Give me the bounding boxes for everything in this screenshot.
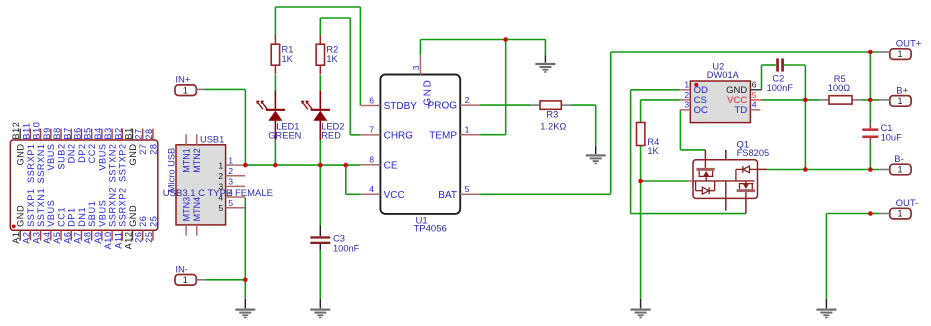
svg-text:2: 2 xyxy=(684,90,689,100)
svg-text:A7: A7 xyxy=(72,231,82,243)
svg-text:B10: B10 xyxy=(32,122,42,140)
svg-text:IN+: IN+ xyxy=(175,75,191,86)
svg-text:28: 28 xyxy=(144,128,154,139)
svg-text:100Ω: 100Ω xyxy=(828,83,851,93)
svg-text:5: 5 xyxy=(228,198,233,208)
svg-text:1: 1 xyxy=(684,80,689,90)
svg-text:SSTXN1: SSTXN1 xyxy=(36,188,46,227)
svg-text:27: 27 xyxy=(134,128,144,139)
svg-text:A10: A10 xyxy=(103,231,113,249)
svg-text:1.2KΩ: 1.2KΩ xyxy=(540,122,566,132)
svg-text:B5: B5 xyxy=(83,127,93,139)
svg-text:B+: B+ xyxy=(896,85,908,96)
svg-text:1K: 1K xyxy=(647,146,659,156)
svg-text:C1: C1 xyxy=(881,123,893,133)
svg-text:CC1: CC1 xyxy=(56,207,66,227)
svg-text:VBUS: VBUS xyxy=(46,200,56,227)
svg-text:1: 1 xyxy=(897,96,902,106)
svg-text:TEMP: TEMP xyxy=(429,130,457,141)
svg-text:OUT-: OUT- xyxy=(896,198,919,209)
svg-text:A6: A6 xyxy=(62,231,72,243)
svg-text:BAT: BAT xyxy=(438,190,457,201)
svg-text:1: 1 xyxy=(228,155,233,165)
svg-text:1K: 1K xyxy=(282,54,294,64)
svg-text:1: 1 xyxy=(897,209,902,219)
svg-text:MTN4: MTN4 xyxy=(192,197,202,222)
svg-text:SSTXP1: SSTXP1 xyxy=(26,188,36,227)
svg-text:SUB2: SUB2 xyxy=(56,143,66,169)
svg-text:A8: A8 xyxy=(83,231,93,243)
svg-text:B4: B4 xyxy=(93,127,103,139)
svg-text:B1: B1 xyxy=(124,127,134,139)
svg-text:TD: TD xyxy=(735,105,748,116)
svg-text:VBUS: VBUS xyxy=(97,143,107,170)
svg-text:R1: R1 xyxy=(282,44,294,54)
svg-text:B11: B11 xyxy=(21,122,31,139)
svg-text:R3: R3 xyxy=(546,110,558,120)
svg-text:A5: A5 xyxy=(52,231,62,243)
svg-text:SSRXP2: SSRXP2 xyxy=(118,187,128,227)
svg-text:CHRG: CHRG xyxy=(384,131,414,142)
svg-text:4: 4 xyxy=(752,100,757,110)
svg-text:MTN1: MTN1 xyxy=(181,148,191,173)
svg-text:GND: GND xyxy=(16,205,26,227)
svg-text:DN2: DN2 xyxy=(67,143,77,163)
svg-text:25: 25 xyxy=(144,231,154,242)
svg-text:1: 1 xyxy=(897,165,902,175)
svg-text:GND: GND xyxy=(128,205,138,227)
svg-text:A11: A11 xyxy=(113,231,123,248)
svg-text:1: 1 xyxy=(465,125,470,135)
svg-text:GREEN: GREEN xyxy=(268,131,301,141)
svg-text:B8: B8 xyxy=(52,127,62,139)
svg-text:C3: C3 xyxy=(333,234,345,244)
svg-text:2: 2 xyxy=(465,95,470,105)
svg-text:OC: OC xyxy=(694,105,708,116)
svg-text:A1: A1 xyxy=(11,231,21,243)
svg-text:6: 6 xyxy=(369,95,374,105)
svg-text:25: 25 xyxy=(148,216,158,227)
svg-text:FS8205: FS8205 xyxy=(737,148,770,158)
svg-text:A2: A2 xyxy=(21,231,31,243)
svg-text:SSTXP2: SSTXP2 xyxy=(118,143,128,182)
svg-text:SBU1: SBU1 xyxy=(87,201,97,227)
svg-text:B3: B3 xyxy=(103,127,113,139)
svg-text:CC2: CC2 xyxy=(87,143,97,163)
svg-text:7: 7 xyxy=(369,125,374,135)
svg-text:GND: GND xyxy=(128,143,138,165)
svg-text:5: 5 xyxy=(752,90,757,100)
svg-text:8: 8 xyxy=(369,155,374,165)
svg-text:USB1: USB1 xyxy=(200,135,224,145)
svg-text:DN1: DN1 xyxy=(77,207,87,227)
svg-text:100nF: 100nF xyxy=(333,243,360,253)
svg-text:1: 1 xyxy=(218,160,223,170)
svg-text:A3: A3 xyxy=(32,231,42,243)
svg-text:B9: B9 xyxy=(42,127,52,139)
svg-text:DP2: DP2 xyxy=(77,143,87,163)
svg-text:3: 3 xyxy=(228,177,233,187)
svg-text:Micro USB: Micro USB xyxy=(167,148,177,192)
svg-text:A9: A9 xyxy=(93,231,103,243)
svg-text:MTN3: MTN3 xyxy=(181,197,191,222)
svg-text:OUT+: OUT+ xyxy=(896,39,922,50)
svg-text:100nF: 100nF xyxy=(767,83,794,93)
svg-text:TP4056: TP4056 xyxy=(414,224,447,235)
svg-text:R2: R2 xyxy=(326,44,338,54)
svg-text:STDBY: STDBY xyxy=(384,101,418,112)
svg-text:4: 4 xyxy=(369,184,374,194)
svg-text:VBUS: VBUS xyxy=(46,143,56,170)
svg-text:1: 1 xyxy=(897,49,902,59)
svg-text:VCC: VCC xyxy=(384,190,405,201)
svg-text:SSRXP1: SSRXP1 xyxy=(26,143,36,183)
svg-text:3: 3 xyxy=(411,65,421,70)
svg-text:DP1: DP1 xyxy=(67,207,77,227)
svg-text:B7: B7 xyxy=(62,127,72,139)
svg-text:GND: GND xyxy=(423,79,434,106)
svg-text:2: 2 xyxy=(228,166,233,176)
svg-text:USB3.1 C TYPE FEMALE: USB3.1 C TYPE FEMALE xyxy=(163,188,273,199)
svg-text:A4: A4 xyxy=(42,231,52,243)
svg-text:2: 2 xyxy=(218,171,223,181)
svg-text:5: 5 xyxy=(218,203,223,213)
svg-text:DW01A: DW01A xyxy=(707,70,740,80)
svg-text:B12: B12 xyxy=(11,122,21,140)
svg-text:28: 28 xyxy=(148,143,158,154)
svg-text:GND: GND xyxy=(16,143,26,165)
svg-text:B6: B6 xyxy=(72,127,82,139)
svg-text:IN-: IN- xyxy=(175,264,188,275)
svg-text:SSTXN2: SSTXN2 xyxy=(107,143,117,182)
svg-text:SSRXN1: SSRXN1 xyxy=(36,143,46,183)
svg-text:10uF: 10uF xyxy=(881,133,903,143)
svg-text:RED: RED xyxy=(321,131,341,141)
svg-text:27: 27 xyxy=(138,143,148,154)
svg-text:VBUS: VBUS xyxy=(97,200,107,227)
svg-text:B2: B2 xyxy=(113,127,123,139)
svg-text:26: 26 xyxy=(134,231,144,242)
svg-text:6: 6 xyxy=(752,80,757,90)
svg-text:A12: A12 xyxy=(124,231,134,249)
svg-text:5: 5 xyxy=(465,184,470,194)
svg-text:1K: 1K xyxy=(326,54,338,64)
svg-text:CE: CE xyxy=(384,160,398,171)
svg-text:3: 3 xyxy=(684,100,689,110)
svg-text:1: 1 xyxy=(183,85,188,95)
svg-text:SSRXN2: SSRXN2 xyxy=(107,187,117,227)
svg-text:MTN2: MTN2 xyxy=(192,148,202,173)
svg-text:26: 26 xyxy=(138,216,148,227)
svg-text:B-: B- xyxy=(894,154,904,165)
svg-text:1: 1 xyxy=(183,275,188,285)
